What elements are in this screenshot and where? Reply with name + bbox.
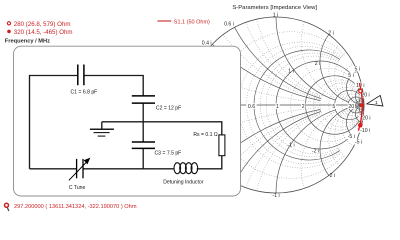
svg-text:C2 = 12 pF: C2 = 12 pF	[156, 106, 181, 112]
svg-text:280 (26.8, 579) Ohm: 280 (26.8, 579) Ohm	[14, 21, 71, 28]
svg-text:-1 i: -1 i	[272, 193, 279, 199]
svg-text:20: 20	[348, 104, 354, 110]
ground symbol	[90, 129, 114, 136]
port marker triangle 1	[367, 95, 383, 106]
marker current frequency dot	[360, 103, 364, 107]
smith grid: solid reactance arcs	[212, 17, 364, 193]
svg-text:1 i: 1 i	[288, 69, 293, 75]
status marker icon	[5, 203, 9, 207]
wire C2 to junction to C3	[142, 103, 144, 141]
svg-text:Rs = 0.1 Ω: Rs = 0.1 Ω	[193, 132, 218, 138]
ground stub	[101, 122, 103, 129]
wire C Tune to inductor	[83, 168, 174, 170]
svg-text:C1 = 6.8 pF: C1 = 6.8 pF	[71, 89, 98, 95]
svg-text:-10 i: -10 i	[360, 128, 370, 134]
capacitor C3 plates	[132, 142, 155, 148]
svg-text:-2 i: -2 i	[328, 173, 335, 179]
svg-text:Detuning Inductor: Detuning Inductor	[163, 179, 204, 185]
variable capacitor C Tune arrow	[69, 161, 87, 180]
inductor coil loops	[174, 163, 198, 174]
svg-text:2 i: 2 i	[328, 31, 333, 37]
svg-text:-1 i: -1 i	[287, 142, 294, 148]
svg-text:5: 5	[332, 104, 335, 110]
smith chart horizontal axis	[188, 104, 364, 106]
smith chart inner reactance labels	[287, 61, 357, 155]
svg-text:C3 = 7.5 pF: C3 = 7.5 pF	[155, 150, 182, 156]
schematic rounded box	[14, 46, 241, 196]
smith chart outer rim	[188, 17, 364, 193]
svg-text:0.6: 0.6	[248, 104, 255, 110]
legend S1,1 line	[158, 20, 172, 22]
capacitor C2 plates	[132, 96, 155, 103]
wire C1 to top-right corner down to C2	[84, 76, 143, 96]
wire resistor to mid-right corner to junction	[102, 122, 222, 135]
svg-text:5 i: 5 i	[348, 73, 353, 79]
svg-text:1: 1	[375, 100, 378, 106]
smith chart axis resistance labels	[246, 103, 355, 110]
smith grid: dotted reactance arcs	[195, 19, 364, 191]
svg-text:-5 i: -5 i	[348, 134, 355, 140]
marker 280 MHz open circle	[359, 89, 362, 92]
marker legend 320 filled circle	[7, 30, 11, 34]
smith grid: dotted resistance circles	[217, 32, 364, 179]
variable capacitor C Tune plates	[77, 159, 83, 178]
svg-text:S1,1 (50 Ohm): S1,1 (50 Ohm)	[174, 20, 210, 26]
svg-text:1: 1	[276, 104, 279, 110]
wire inductor to corner up to resistor	[197, 156, 222, 169]
wire bottom-left to C Tune	[30, 168, 77, 170]
wire C3 down to bottom junction	[142, 149, 144, 169]
svg-text:Frequency / MHz: Frequency / MHz	[5, 39, 50, 45]
svg-text:5 i: 5 i	[355, 67, 360, 73]
svg-text:-2 i: -2 i	[312, 149, 319, 155]
svg-text:2: 2	[302, 104, 305, 110]
marker legend 280 open circle	[7, 22, 10, 25]
svg-text:297.200000 ( 13611.341324, -32: 297.200000 ( 13611.341324, -322.190070 )…	[14, 204, 137, 210]
trace S1,1 red curve	[358, 83, 362, 131]
wire top left to C1	[30, 75, 78, 77]
smith grid: solid resistance circles	[254, 50, 364, 160]
wire left side	[29, 75, 31, 169]
svg-text:S-Parameters [Impedance View]: S-Parameters [Impedance View]	[232, 5, 317, 11]
svg-text:1 i: 1 i	[273, 12, 278, 18]
svg-text:2 i: 2 i	[315, 61, 320, 67]
resistor Rs body	[219, 135, 225, 156]
svg-text:0.6 i: 0.6 i	[224, 22, 234, 28]
svg-text:C Tune: C Tune	[69, 185, 86, 191]
svg-text:320 (14.5, -465) Ohm: 320 (14.5, -465) Ohm	[14, 29, 73, 36]
svg-text:-5 i: -5 i	[355, 140, 362, 146]
svg-text:0.4 i: 0.4 i	[202, 40, 212, 46]
marker 320 MHz filled circle	[358, 123, 363, 128]
smith chart rim reactance labels	[202, 12, 373, 199]
capacitor C1 plates	[78, 65, 84, 86]
